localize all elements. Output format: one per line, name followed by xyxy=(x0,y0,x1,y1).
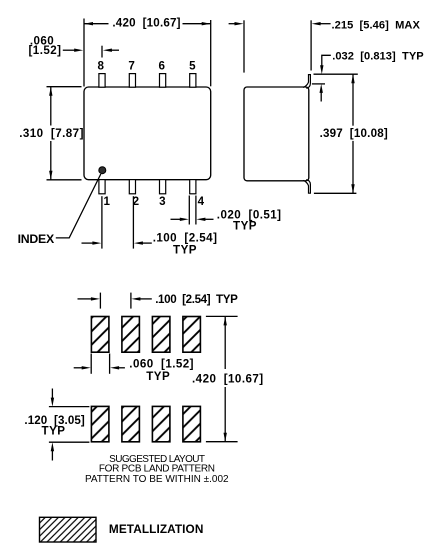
metallization legend label xyxy=(109,522,204,536)
svg-text:.420 [10.67]: .420 [10.67] xyxy=(192,372,264,385)
dimension .020 extension line pin 4 right xyxy=(195,196,197,225)
svg-text:6: 6 xyxy=(158,60,165,73)
dimension .310 extension line bottom xyxy=(47,179,82,181)
dimension .397 extension line bottom (y=193.3) xyxy=(314,192,357,194)
svg-text:.060 [1.52]: .060 [1.52] xyxy=(129,357,194,370)
svg-text:TYP: TYP xyxy=(146,370,170,383)
pin 5 lead (top) xyxy=(190,74,196,88)
dimension label .100 [2.54] xyxy=(153,231,218,244)
dimension label TYP (.060 land) xyxy=(146,370,170,383)
land pad 3 (top row, hatched) xyxy=(152,317,170,353)
dimension .060 land left arrow xyxy=(74,366,91,369)
pin 1 lead (bottom) xyxy=(99,180,105,194)
dimension label TYP (.020) xyxy=(233,220,257,233)
svg-text:.397 [10.08]: .397 [10.08] xyxy=(320,127,388,140)
dimension .060 land extension line pad1 left xyxy=(90,354,92,374)
svg-text:1: 1 xyxy=(103,195,110,208)
index dot (pin 1 marker) xyxy=(99,167,106,174)
dimension .420 land dim line + arrows xyxy=(224,316,227,441)
svg-text:7: 7 xyxy=(128,60,134,73)
dimension label .420 [10.67] xyxy=(112,16,180,29)
side view bottom lead (gull wing) xyxy=(303,180,311,194)
dimension .397 dim line + arrows xyxy=(351,74,354,193)
dimension .310 extension line top xyxy=(47,86,82,88)
dimension .215 extension line (x=311.1) xyxy=(310,20,312,70)
svg-text:INDEX: INDEX xyxy=(18,232,55,246)
dimension .060 land right arrow xyxy=(110,366,125,369)
dimension label .397 [10.08] xyxy=(320,127,388,140)
dimension .032 leader with down arrow xyxy=(320,55,331,74)
dimension label .060 [1.52] (land) xyxy=(129,357,194,370)
svg-text:.032 [0.813] TYP: .032 [0.813] TYP xyxy=(332,50,424,62)
dimension label .420 [10.67] (land) xyxy=(192,372,264,385)
front view package body xyxy=(84,87,211,180)
pin number 8 xyxy=(97,60,104,73)
svg-text:[1.52]: [1.52] xyxy=(29,44,62,57)
pin number 2 xyxy=(133,195,139,208)
pin 2 lead (bottom) xyxy=(129,180,135,194)
dimension label TYP (.100) xyxy=(173,244,197,257)
dimension label .032 [0.813] TYP xyxy=(332,50,424,62)
pin number 5 xyxy=(189,60,196,73)
land pad 2 (top row, hatched) xyxy=(122,317,139,353)
INDEX label xyxy=(18,232,55,246)
svg-text:.310 [7.87]: .310 [7.87] xyxy=(19,127,84,140)
svg-text:TYP: TYP xyxy=(233,220,257,233)
dimension label .215 [5.46] MAX xyxy=(332,19,421,31)
dimension label .060 [1.52] xyxy=(29,35,62,57)
dimension .100 land tick pad 1 center xyxy=(99,293,101,309)
dimension label .020 [0.51] xyxy=(217,209,282,222)
svg-text:4: 4 xyxy=(198,195,205,208)
dimension .397 extension line top (lead tip) xyxy=(314,73,358,75)
dimension .120 extension line bottom xyxy=(49,441,90,443)
pin number 3 xyxy=(159,195,166,208)
INDEX leader line xyxy=(56,174,101,238)
svg-text:8: 8 xyxy=(97,60,104,73)
dimension label .120 [3.05] xyxy=(24,414,85,427)
dimension .420 [10.67] extension line left (x=84) xyxy=(83,19,85,87)
svg-text:METALLIZATION: METALLIZATION xyxy=(109,522,204,536)
land pad 1 (top row, hatched) xyxy=(91,317,109,353)
side view top lead (gull wing) xyxy=(303,75,311,89)
svg-text:PATTERN TO BE WITHIN ±.002: PATTERN TO BE WITHIN ±.002 xyxy=(85,474,229,485)
dimension .100 left arrow xyxy=(82,241,102,244)
metallization legend swatch (hatched) xyxy=(40,517,97,542)
side view package body xyxy=(244,87,309,181)
svg-text:.100 [2.54]: .100 [2.54] xyxy=(153,231,218,244)
svg-text:.215 [5.46] MAX: .215 [5.46] MAX xyxy=(332,19,421,31)
caption line 2 xyxy=(99,464,215,475)
dimension .215 left arrow xyxy=(229,22,244,25)
svg-text:TYP: TYP xyxy=(42,424,66,437)
pin number 7 xyxy=(128,60,134,73)
dimension .060 land extension line pad1 right xyxy=(109,354,111,374)
dimension .215 right arrow xyxy=(312,22,331,25)
dimension label .310 [7.87] xyxy=(19,127,84,140)
dimension .120 extension line top xyxy=(49,406,90,408)
caption line 3 xyxy=(85,474,229,485)
dimension .100 land left arrow xyxy=(78,297,100,300)
dimension .020 left arrow xyxy=(171,218,189,221)
svg-text:5: 5 xyxy=(189,60,196,73)
pin number 4 xyxy=(198,195,205,208)
dimension .100 right arrow xyxy=(134,241,152,244)
caption line 1 xyxy=(109,454,205,465)
dimension .397 extension line mid (y=83.9) xyxy=(312,83,325,85)
land pad 7 (bottom row, hatched) xyxy=(152,406,170,441)
svg-text:3: 3 xyxy=(159,195,166,208)
dimension label TYP (.120) xyxy=(42,424,66,437)
dimension .215 extension line (x=244) xyxy=(243,20,245,72)
dimension .100 land tick pad 2 center xyxy=(130,293,132,309)
pin number 1 xyxy=(103,195,110,208)
land pad 8 (bottom row, hatched) xyxy=(183,406,201,441)
dimension .032 up arrow xyxy=(320,84,323,102)
land pad 4 (top row, hatched) xyxy=(183,317,201,353)
dimension .420 land extension line bottom xyxy=(206,441,238,443)
dimension .060 tick at pin 8 centerline xyxy=(101,46,103,58)
dimension .420 [10.67] extension line right (x=210.7) xyxy=(210,20,212,86)
pin number 6 xyxy=(158,60,165,73)
dimension label .100 [2.54] TYP (land) xyxy=(155,293,238,306)
dimension .310 dim line + arrows xyxy=(49,87,52,180)
dimension .120 down arrow xyxy=(51,389,54,407)
dimension .060 leader arrow to package edge xyxy=(63,49,83,52)
dimension .020 right arrow xyxy=(196,218,213,221)
pin 4 lead (bottom) xyxy=(190,180,196,194)
svg-text:.100 [2.54] TYP: .100 [2.54] TYP xyxy=(155,293,238,306)
pin 8 lead (top) xyxy=(99,74,105,88)
dimension .120 up arrow xyxy=(51,442,54,460)
dimension .420 [10.67] dim line + arrows xyxy=(84,22,211,25)
svg-text:.420 [10.67]: .420 [10.67] xyxy=(112,16,180,29)
dimension .100 extension line pin 1 xyxy=(101,196,103,248)
dimension .100 extension line pin 2 xyxy=(132,196,134,248)
land pad 6 (bottom row, hatched) xyxy=(122,406,139,441)
dimension .420 land extension line top xyxy=(206,315,238,317)
svg-text:TYP: TYP xyxy=(173,244,197,257)
dimension .020 extension line pin 4 left xyxy=(188,196,190,225)
land pad 5 (bottom row, hatched) xyxy=(91,406,109,441)
dimension .100 land right arrow xyxy=(131,297,151,300)
pin 7 lead (top) xyxy=(129,74,135,88)
pin 6 lead (top) xyxy=(160,74,166,88)
dimension .060 arrow at pin 8 xyxy=(103,49,119,52)
pin 3 lead (bottom) xyxy=(160,180,166,194)
